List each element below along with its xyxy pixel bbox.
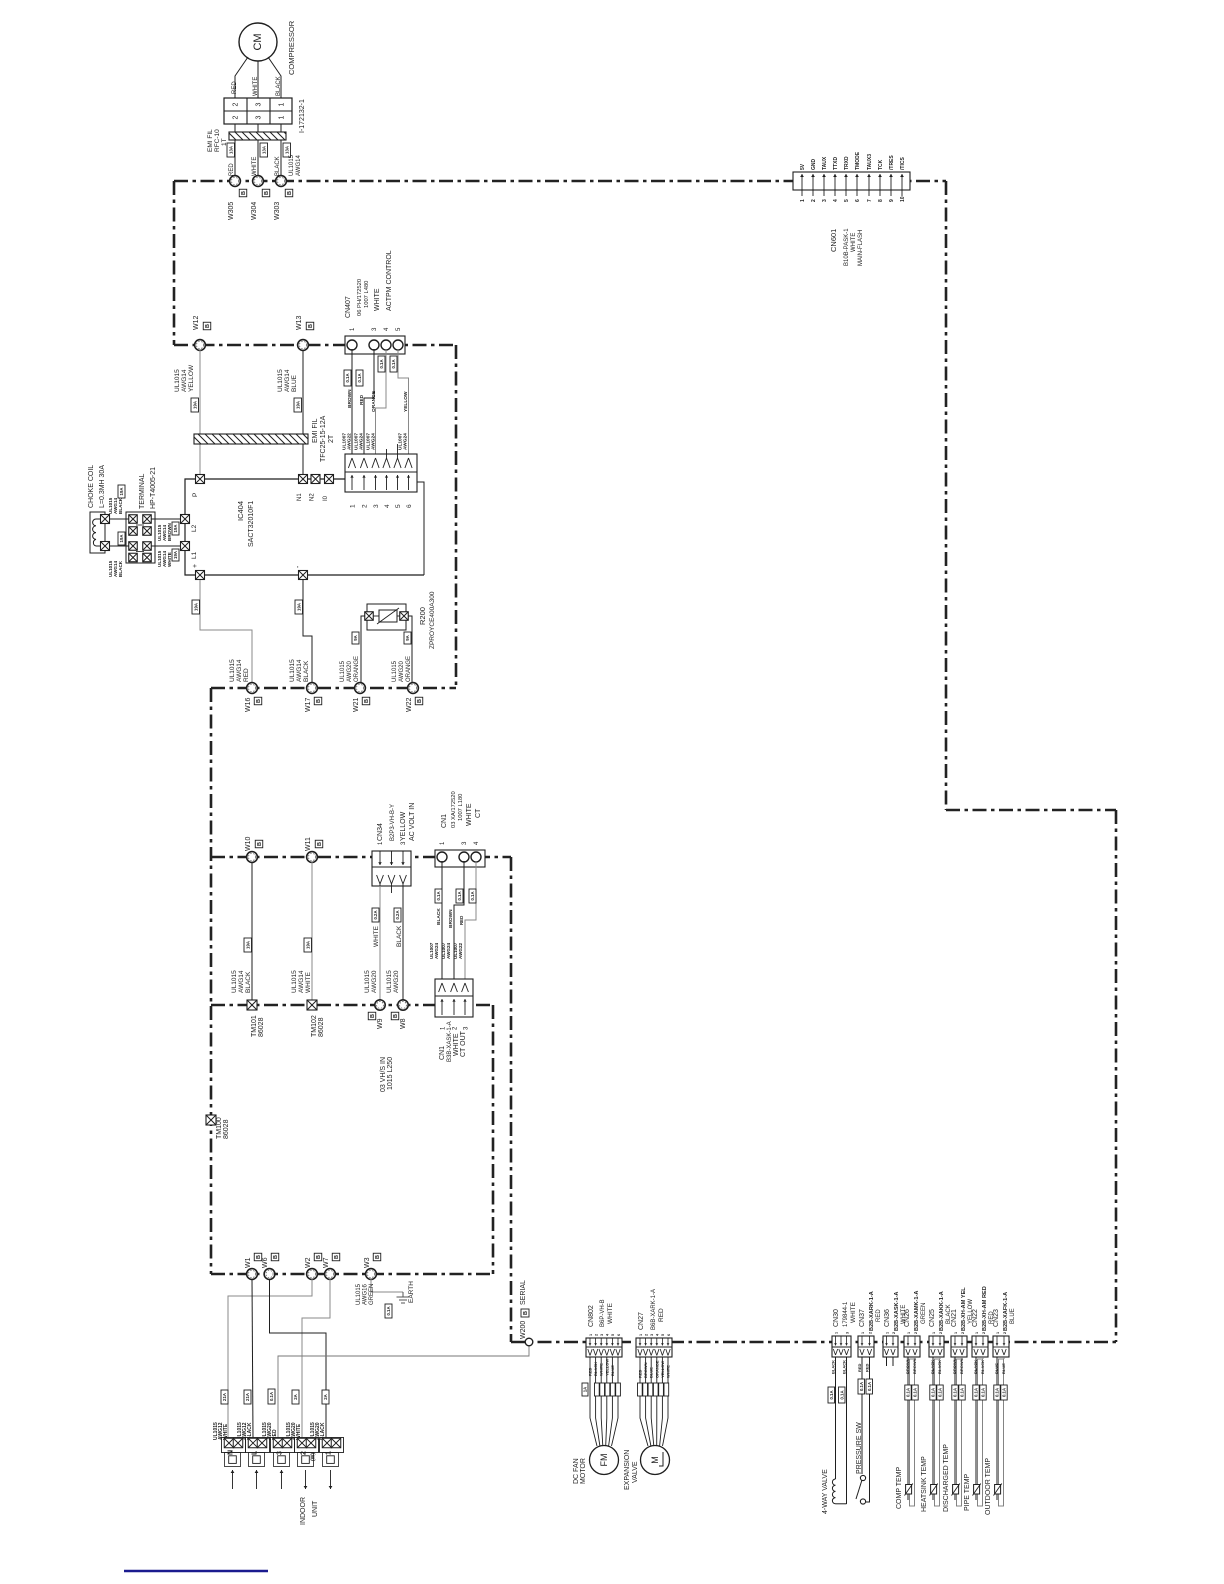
svg-text:HEATSINK TEMP: HEATSINK TEMP <box>921 1456 928 1512</box>
svg-text:W11: W11 <box>305 837 312 851</box>
svg-text:TAUX3: TAUX3 <box>867 154 873 170</box>
svg-text:WHITE: WHITE <box>666 1365 671 1378</box>
svg-text:WHITE: WHITE <box>466 803 473 826</box>
svg-text:UL1015: UL1015 <box>291 970 298 993</box>
svg-text:19A: 19A <box>193 603 198 611</box>
svg-text:PIPE TEMP: PIPE TEMP <box>964 1473 971 1511</box>
svg-text:0.1A: 0.1A <box>913 1388 918 1397</box>
svg-text:ORANGE: ORANGE <box>406 656 412 682</box>
svg-text:CN25: CN25 <box>929 1309 936 1327</box>
svg-text:CN21: CN21 <box>951 1309 958 1327</box>
svg-text:AWG24: AWG24 <box>403 433 409 450</box>
svg-text:AWG14: AWG14 <box>238 970 245 993</box>
svg-text:B: B <box>256 699 262 703</box>
svg-text:CN802: CN802 <box>588 1305 595 1327</box>
svg-text:0.1A: 0.1A <box>995 1388 1000 1397</box>
svg-text:CN26: CN26 <box>904 1309 911 1327</box>
svg-text:1: 1 <box>326 1451 333 1455</box>
svg-text:B: B <box>370 1014 376 1018</box>
svg-text:3: 3 <box>845 1332 849 1334</box>
svg-text:BROWN: BROWN <box>347 389 353 408</box>
svg-text:W12: W12 <box>193 316 200 331</box>
svg-text:1015 L250: 1015 L250 <box>387 1057 394 1090</box>
svg-text:W10: W10 <box>245 837 252 852</box>
svg-text:B6B-XARK-1-A: B6B-XARK-1-A <box>651 1289 657 1330</box>
svg-text:RED: RED <box>876 1309 882 1322</box>
svg-text:B: B <box>393 1014 399 1018</box>
svg-text:6: 6 <box>667 1334 671 1336</box>
svg-text:BROWN: BROWN <box>912 1358 917 1374</box>
svg-text:179844-1: 179844-1 <box>843 1301 849 1327</box>
svg-text:W304: W304 <box>251 202 258 220</box>
svg-text:AWG20: AWG20 <box>393 970 400 993</box>
svg-text:WHITE: WHITE <box>374 288 381 311</box>
svg-text:TM102: TM102 <box>311 1015 318 1037</box>
svg-text:19A: 19A <box>192 401 197 409</box>
svg-text:BROWN: BROWN <box>905 1358 910 1374</box>
svg-text:TMODE: TMODE <box>855 151 861 170</box>
svg-text:0.1A: 0.1A <box>379 359 384 368</box>
svg-text:RED: RED <box>459 916 464 925</box>
svg-text:1007 L480: 1007 L480 <box>364 281 370 308</box>
svg-text:1: 1 <box>279 115 286 119</box>
svg-text:AWG24: AWG24 <box>359 433 365 450</box>
svg-text:0.1A: 0.1A <box>829 1390 834 1399</box>
svg-text:UL1015: UL1015 <box>392 660 398 682</box>
svg-text:0.1A: 0.1A <box>906 1388 911 1397</box>
svg-text:1: 1 <box>834 1332 838 1334</box>
svg-text:UL1015: UL1015 <box>229 659 236 682</box>
svg-text:R200: R200 <box>418 607 427 625</box>
svg-text:TRXD: TRXD <box>844 156 850 170</box>
svg-text:1: 1 <box>800 199 806 202</box>
svg-text:19A: 19A <box>119 488 124 496</box>
svg-text:INDOOR: INDOOR <box>300 1497 307 1525</box>
svg-text:PRESSURE SW: PRESSURE SW <box>856 1422 863 1474</box>
svg-text:9A: 9A <box>405 635 410 641</box>
svg-text:86028: 86028 <box>258 1017 265 1037</box>
svg-text:YELLOW: YELLOW <box>400 811 407 841</box>
svg-text:BLACK: BLACK <box>245 971 252 993</box>
svg-text:TERMINAL: TERMINAL <box>139 474 146 510</box>
svg-text:B: B <box>205 324 211 328</box>
svg-text:RED: RED <box>658 1308 665 1322</box>
svg-text:06 PH/172520: 06 PH/172520 <box>357 279 363 316</box>
svg-text:AWG24: AWG24 <box>371 433 377 450</box>
svg-text:B: B <box>264 191 270 195</box>
svg-text:AWG14: AWG14 <box>296 155 302 176</box>
svg-text:B: B <box>364 699 370 703</box>
svg-text:1: 1 <box>861 1332 865 1334</box>
svg-text:0.1A: 0.1A <box>867 1382 872 1391</box>
svg-text:W3: W3 <box>364 1257 371 1268</box>
svg-text:2: 2 <box>1003 1332 1007 1334</box>
svg-text:3: 3 <box>373 504 380 508</box>
svg-text:BLUE: BLUE <box>610 1365 615 1376</box>
svg-text:WHITE: WHITE <box>599 1363 604 1376</box>
svg-text:UL1015: UL1015 <box>364 970 371 993</box>
svg-text:19A: 19A <box>119 535 124 543</box>
svg-text:UL1015: UL1015 <box>356 1283 362 1305</box>
svg-text:WHITE: WHITE <box>253 77 259 96</box>
svg-text:19A: 19A <box>295 401 300 409</box>
svg-text:ORANGE: ORANGE <box>654 1360 659 1378</box>
svg-text:UL1015: UL1015 <box>277 369 284 392</box>
svg-text:2A: 2A <box>293 1394 298 1400</box>
svg-text:W305: W305 <box>228 202 235 220</box>
svg-text:RED: RED <box>588 1367 593 1376</box>
svg-text:1: 1 <box>639 1334 643 1336</box>
svg-text:0.1A: 0.1A <box>357 373 362 382</box>
svg-text:N2: N2 <box>310 493 316 501</box>
svg-text:BROWN: BROWN <box>959 1358 964 1374</box>
svg-text:RED: RED <box>232 81 238 94</box>
svg-text:B2B-XAMK-1-A: B2B-XAMK-1-A <box>914 1291 920 1331</box>
svg-text:BLACK: BLACK <box>396 925 403 947</box>
svg-text:0.1A: 0.1A <box>981 1388 986 1397</box>
svg-text:GREEN: GREEN <box>921 1303 927 1324</box>
svg-text:YELLOW: YELLOW <box>604 1359 609 1376</box>
svg-text:19A: 19A <box>173 551 178 559</box>
svg-text:19A: 19A <box>305 941 310 949</box>
svg-text:BLACK: BLACK <box>980 1360 985 1374</box>
svg-text:AWG14: AWG14 <box>284 369 291 392</box>
svg-text:1: 1 <box>975 1332 979 1334</box>
svg-text:WHITE: WHITE <box>252 157 258 176</box>
svg-text:1: 1 <box>279 102 286 106</box>
svg-text:B: B <box>273 1255 279 1259</box>
svg-text:2: 2 <box>982 1332 986 1334</box>
svg-text:W9: W9 <box>377 1018 384 1029</box>
svg-text:W200: W200 <box>520 1321 527 1339</box>
svg-text:TM101: TM101 <box>251 1015 258 1037</box>
svg-text:9: 9 <box>889 199 895 202</box>
svg-text:10: 10 <box>900 196 906 202</box>
svg-text:0.2A: 0.2A <box>373 910 378 919</box>
svg-text:CN601: CN601 <box>829 229 838 252</box>
svg-text:2: 2 <box>233 102 240 106</box>
svg-text:2: 2 <box>594 1334 598 1336</box>
svg-text:/TICS: /TICS <box>900 157 906 170</box>
svg-text:BLACK: BLACK <box>118 560 123 577</box>
svg-text:WHITE: WHITE <box>167 552 172 567</box>
svg-text:0.1A: 0.1A <box>859 1382 864 1391</box>
svg-text:COMP TEMP: COMP TEMP <box>896 1467 903 1509</box>
svg-text:B: B <box>308 324 314 328</box>
svg-text:13A: 13A <box>261 146 266 154</box>
svg-text:+: + <box>192 564 199 568</box>
svg-text:M: M <box>650 1456 660 1464</box>
svg-text:CN34: CN34 <box>377 823 384 841</box>
svg-text:5: 5 <box>844 199 850 202</box>
svg-text:UL1015: UL1015 <box>174 369 181 392</box>
svg-text:EMI FIL: EMI FIL <box>207 129 214 152</box>
svg-text:W6: W6 <box>262 1257 269 1268</box>
svg-text:1: 1 <box>954 1332 958 1334</box>
svg-text:BLUE: BLUE <box>649 1367 654 1378</box>
svg-text:5: 5 <box>661 1334 665 1336</box>
svg-text:3: 3 <box>256 115 263 119</box>
svg-text:BLUE: BLUE <box>1001 1363 1006 1374</box>
svg-text:19A: 19A <box>245 941 250 949</box>
svg-text:CN30: CN30 <box>833 1309 840 1327</box>
svg-text:GREEN: GREEN <box>369 1284 375 1305</box>
svg-text:EMI FIL: EMI FIL <box>312 418 319 443</box>
svg-text:TTXD: TTXD <box>833 157 839 170</box>
svg-text:UL1015: UL1015 <box>386 970 393 993</box>
svg-text:3: 3 <box>650 1334 654 1336</box>
svg-text:2: 2 <box>644 1334 648 1336</box>
svg-text:2: 2 <box>362 504 369 508</box>
svg-text:CN1: CN1 <box>439 1046 446 1060</box>
svg-text:1007 L180: 1007 L180 <box>458 794 464 821</box>
svg-text:6: 6 <box>406 504 413 508</box>
svg-text:B2B-XASK-1-A: B2B-XASK-1-A <box>894 1292 900 1331</box>
svg-text:YELLOW: YELLOW <box>403 391 409 412</box>
svg-text:2T: 2T <box>328 434 335 443</box>
svg-text:5: 5 <box>395 504 402 508</box>
svg-text:WHITE: WHITE <box>305 971 312 993</box>
svg-text:3: 3 <box>600 1334 604 1336</box>
svg-text:8: 8 <box>878 199 884 202</box>
svg-text:2: 2 <box>301 1451 308 1455</box>
svg-text:BROWN: BROWN <box>448 909 454 928</box>
svg-text:AWG20: AWG20 <box>399 661 405 682</box>
svg-text:2: 2 <box>961 1332 965 1334</box>
svg-text:WHITE: WHITE <box>607 1302 614 1324</box>
svg-text:P: P <box>192 493 199 497</box>
svg-text:1A: 1A <box>583 1387 588 1393</box>
svg-text:L: L <box>252 1450 259 1455</box>
svg-text:N1: N1 <box>297 493 303 501</box>
svg-text:0.1A: 0.1A <box>269 1392 274 1401</box>
svg-text:BLACK: BLACK <box>118 497 123 514</box>
svg-text:4: 4 <box>833 199 839 202</box>
svg-text:03 VH/S IN: 03 VH/S IN <box>380 1057 387 1092</box>
svg-text:0.1A: 0.1A <box>436 891 441 900</box>
svg-text:B6P-VH-B: B6P-VH-B <box>600 1299 606 1327</box>
svg-text:ORANGE: ORANGE <box>354 656 360 682</box>
svg-text:1: 1 <box>907 1332 911 1334</box>
svg-text:0.1A: 0.1A <box>457 891 462 900</box>
svg-text:UL1015: UL1015 <box>340 660 346 682</box>
svg-text:CN407: CN407 <box>345 296 352 318</box>
svg-text:2: 2 <box>914 1332 918 1334</box>
svg-text:13A: 13A <box>284 146 289 154</box>
svg-text:BLACK: BLACK <box>937 1360 942 1374</box>
svg-text:BLACK: BLACK <box>276 76 282 96</box>
svg-text:2: 2 <box>811 199 817 202</box>
svg-text:B2B-XH-AM RED: B2B-XH-AM RED <box>982 1286 988 1331</box>
svg-text:AWG14: AWG14 <box>296 659 303 682</box>
svg-text:B2P3-VH-B-Y: B2P3-VH-B-Y <box>390 804 396 841</box>
svg-text:UL1015: UL1015 <box>289 154 295 176</box>
svg-text:BLACK: BLACK <box>275 156 281 176</box>
svg-text:2: 2 <box>233 115 240 119</box>
svg-text:AWG20: AWG20 <box>371 970 378 993</box>
svg-text:CN23: CN23 <box>993 1309 1000 1327</box>
svg-text:6: 6 <box>855 199 861 202</box>
svg-text:SERIAL: SERIAL <box>520 1280 527 1305</box>
svg-text:OUTDOOR TEMP: OUTDOOR TEMP <box>985 1458 992 1515</box>
svg-text:ZPROYCE400A300: ZPROYCE400A300 <box>429 591 436 649</box>
svg-text:0.1A: 0.1A <box>960 1388 965 1397</box>
svg-text:03 XA/172520: 03 XA/172520 <box>451 791 457 828</box>
svg-text:5: 5 <box>611 1334 615 1336</box>
svg-text:W1: W1 <box>245 1257 252 1268</box>
svg-text:COMPRESSOR: COMPRESSOR <box>287 20 296 75</box>
svg-text:L2: L2 <box>191 524 198 532</box>
svg-text:4: 4 <box>384 504 391 508</box>
svg-text:BLACK: BLACK <box>973 1360 978 1374</box>
svg-text:VALVE: VALVE <box>632 1461 639 1483</box>
svg-text:CM: CM <box>252 33 264 50</box>
svg-text:CHOKE COIL: CHOKE COIL <box>88 465 95 508</box>
svg-text:EXPANSION: EXPANSION <box>624 1450 631 1490</box>
svg-text:1: 1 <box>885 1332 889 1334</box>
svg-text:W7: W7 <box>323 1257 330 1268</box>
svg-text:AWG14: AWG14 <box>298 970 305 993</box>
svg-text:BLUE: BLUE <box>994 1363 999 1374</box>
svg-text:B: B <box>375 1255 381 1259</box>
svg-text:19A: 19A <box>296 603 301 611</box>
svg-text:7: 7 <box>867 199 873 202</box>
svg-text:RED: RED <box>857 1363 862 1372</box>
svg-text:N: N <box>228 1450 235 1455</box>
svg-text:21A: 21A <box>222 1393 227 1401</box>
svg-text:9A: 9A <box>353 635 358 641</box>
svg-text:AWG24: AWG24 <box>446 942 451 959</box>
svg-text:B: B <box>317 842 323 846</box>
svg-text:13A: 13A <box>228 146 233 154</box>
svg-text:CN37: CN37 <box>859 1309 866 1327</box>
svg-text:CN36: CN36 <box>884 1309 891 1327</box>
svg-text:B: B <box>417 699 423 703</box>
svg-text:B: B <box>334 1255 340 1259</box>
svg-text:0.1A: 0.1A <box>470 891 475 900</box>
svg-text:AC VOLT IN: AC VOLT IN <box>409 803 416 841</box>
svg-text:YELLOW: YELLOW <box>188 364 195 392</box>
svg-text:TFC25-15-12A: TFC25-15-12A <box>320 415 327 462</box>
svg-text:ORANGE: ORANGE <box>371 390 377 412</box>
svg-text:0.1A: 0.1A <box>953 1388 958 1397</box>
svg-text:W8: W8 <box>400 1018 407 1029</box>
svg-text:B: B <box>316 1255 322 1259</box>
svg-text:86028: 86028 <box>223 1119 230 1139</box>
svg-text:UL1015: UL1015 <box>289 659 296 682</box>
svg-text:UL1015: UL1015 <box>231 970 238 993</box>
svg-text:2: 2 <box>892 1332 896 1334</box>
svg-text:WHITE: WHITE <box>850 1301 857 1323</box>
svg-text:5V: 5V <box>800 163 806 170</box>
svg-text:TAUX: TAUX <box>822 156 828 170</box>
svg-text:TCK: TCK <box>878 159 884 170</box>
svg-text:SACT32010F1: SACT32010F1 <box>248 501 255 547</box>
svg-text:W16: W16 <box>245 698 252 713</box>
svg-text:0.1A: 0.1A <box>386 1306 391 1315</box>
svg-text:CN27: CN27 <box>638 1312 645 1330</box>
svg-text:0.1A: 0.1A <box>391 359 396 368</box>
svg-text:CN1: CN1 <box>441 814 448 828</box>
svg-text:BLACK: BLACK <box>593 1362 598 1376</box>
svg-text:AWG20: AWG20 <box>347 661 353 682</box>
svg-text:W13: W13 <box>296 316 303 331</box>
svg-text:AWG22: AWG22 <box>458 942 463 959</box>
svg-text:WHITE: WHITE <box>453 1033 460 1056</box>
svg-text:AWG14: AWG14 <box>181 369 188 392</box>
svg-text:BLACK: BLACK <box>436 908 442 925</box>
svg-text:HP-T4005-21: HP-T4005-21 <box>150 467 157 509</box>
svg-text:1: 1 <box>589 1334 593 1336</box>
svg-text:FM: FM <box>599 1454 609 1467</box>
svg-text:GND: GND <box>811 159 817 171</box>
svg-text:WHITE: WHITE <box>373 925 380 947</box>
svg-text:RED: RED <box>638 1369 643 1378</box>
svg-text:2: 2 <box>868 1332 872 1334</box>
svg-text:CT OUT: CT OUT <box>460 1030 467 1057</box>
svg-text:B: B <box>523 1311 529 1315</box>
svg-text:BLACK: BLACK <box>831 1360 836 1374</box>
svg-text:MAIN-FLASH: MAIN-FLASH <box>858 230 864 266</box>
svg-text:RED: RED <box>865 1363 870 1372</box>
svg-text:CT: CT <box>475 808 482 818</box>
svg-text:(W): (W) <box>311 1453 317 1461</box>
svg-text:IC404: IC404 <box>236 501 245 521</box>
svg-text:1: 1 <box>932 1332 936 1334</box>
svg-text:CN22: CN22 <box>972 1309 979 1327</box>
svg-text:BROWN: BROWN <box>167 522 172 541</box>
svg-text:3: 3 <box>822 199 828 202</box>
svg-text:I-172132-1: I-172132-1 <box>299 99 306 133</box>
svg-text:B2B-XAKK-1-A: B2B-XAKK-1-A <box>939 1291 945 1331</box>
svg-text:WHITE: WHITE <box>851 233 857 252</box>
svg-text:TM100: TM100 <box>216 1117 223 1139</box>
svg-text:L1: L1 <box>191 551 198 559</box>
svg-text:ACTPM CONTROL: ACTPM CONTROL <box>386 250 393 311</box>
svg-text:0.1A: 0.1A <box>974 1388 979 1397</box>
svg-text:0.1A: 0.1A <box>839 1390 844 1399</box>
svg-text:W21: W21 <box>353 698 360 713</box>
svg-text:AWG14: AWG14 <box>236 659 243 682</box>
svg-text:BLACK: BLACK <box>303 660 310 682</box>
svg-text:3: 3 <box>277 1451 284 1455</box>
svg-text:AWG22: AWG22 <box>347 433 353 450</box>
svg-text:EARTH: EARTH <box>408 1281 415 1303</box>
svg-text:0.1A: 0.1A <box>931 1388 936 1397</box>
svg-text:W22: W22 <box>406 698 413 713</box>
svg-text:2: 2 <box>939 1332 943 1334</box>
svg-text:4-WAY VALVE: 4-WAY VALVE <box>822 1469 829 1514</box>
svg-text:B: B <box>287 191 293 195</box>
svg-text:0.2A: 0.2A <box>395 910 400 919</box>
svg-text:0.1A: 0.1A <box>1002 1388 1007 1397</box>
svg-text:86028: 86028 <box>318 1017 325 1037</box>
svg-text:1: 1 <box>996 1332 1000 1334</box>
svg-text:B: B <box>257 842 263 846</box>
svg-text:L=0.3MH 30A: L=0.3MH 30A <box>99 465 106 508</box>
svg-text:AWG24: AWG24 <box>434 942 439 959</box>
svg-text:B10B-PASK-1: B10B-PASK-1 <box>844 228 850 266</box>
svg-text:BLUE: BLUE <box>291 374 298 392</box>
svg-text:0.1A: 0.1A <box>345 373 350 382</box>
svg-text:BLACK: BLACK <box>842 1360 847 1374</box>
svg-text:BLUE: BLUE <box>1010 1308 1016 1324</box>
svg-text:DC FAN: DC FAN <box>573 1458 580 1484</box>
svg-text:3: 3 <box>256 102 263 106</box>
svg-text:21A: 21A <box>245 1393 250 1401</box>
svg-text:RED: RED <box>243 668 250 682</box>
svg-text:BLACK: BLACK <box>930 1360 935 1374</box>
